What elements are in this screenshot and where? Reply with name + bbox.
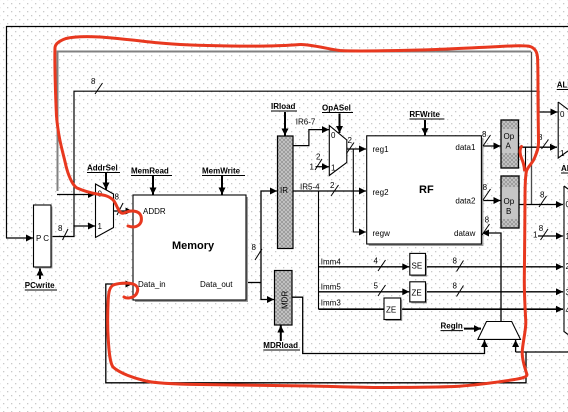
arrow: OpASel down into mux (339, 114, 341, 134)
wire: gray bus vertical right (531, 52, 533, 205)
svg-text:4: 4 (374, 257, 379, 266)
arrow: RegIn into mux (464, 328, 481, 330)
wire: Imm4 to SE (319, 266, 410, 268)
wire: constant 1 (8-bit) to right mux (538, 235, 563, 237)
label OpASel (322, 104, 353, 113)
memory block (133, 195, 248, 302)
register IR (278, 136, 294, 249)
svg-text:MemWrite: MemWrite (202, 167, 241, 176)
label MemRead (131, 167, 172, 176)
arrow: RFWrite down into RF (424, 120, 426, 135)
svg-text:data1: data1 (455, 143, 476, 152)
slash const1 2 (315, 159, 322, 170)
svg-text:IRload: IRload (271, 102, 296, 111)
svg-text:8: 8 (485, 216, 490, 225)
wire: IR6-7 to OpASel mux input 0 (293, 130, 329, 146)
svg-text:1: 1 (98, 222, 103, 231)
sign extend SE (410, 253, 427, 276)
register PC (34, 205, 53, 269)
svg-text:8: 8 (91, 77, 96, 86)
svg-text:1: 1 (533, 231, 538, 240)
wire: Op B output to right mux input (519, 204, 563, 206)
svg-text:Al: Al (561, 164, 568, 173)
svg-text:2: 2 (316, 153, 321, 162)
svg-text:B: B (506, 207, 511, 216)
wire: frame into PC input (6, 237, 33, 239)
slash Op A out 8 (542, 140, 549, 150)
wire: corner down to bottom run (106, 284, 526, 383)
svg-text:IR5-4: IR5-4 (300, 183, 320, 192)
slash SE out 8 (457, 261, 464, 272)
wire: Data_in loop (bottom) (516, 351, 568, 353)
wire: Op A output to ALU mux input 1 (519, 146, 558, 148)
svg-text:reg1: reg1 (373, 145, 390, 154)
register file RF (367, 136, 484, 246)
arrow: MemRead down into Memory (152, 176, 154, 195)
svg-text:ALU: ALU (557, 81, 568, 90)
label RegIn (441, 322, 464, 331)
slash feedback bus 8 (95, 83, 103, 94)
svg-text:Imm4: Imm4 (321, 258, 342, 267)
mux RegIn (trapezoid) (478, 322, 521, 340)
label MemWrite (202, 167, 245, 176)
svg-text:PC: PC (36, 234, 49, 243)
wire: Data_out to junction (246, 282, 261, 284)
slash data1 8 (483, 135, 491, 146)
mux ALU input B (right, cut off) (564, 186, 568, 335)
svg-text:1: 1 (310, 163, 315, 172)
red hand-drawn loop (55, 37, 539, 388)
slash Imm4 4 (378, 260, 386, 271)
svg-text:OpASel: OpASel (322, 104, 351, 113)
wire: Imm branch vertical (318, 191, 320, 309)
svg-text:1: 1 (331, 164, 336, 173)
svg-text:8: 8 (483, 183, 488, 192)
mux AddrSel (96, 184, 114, 238)
svg-text:Data_out: Data_out (200, 280, 233, 289)
svg-text:8: 8 (482, 130, 487, 139)
wire: Imm3 through ZE to right mux (319, 308, 564, 310)
wire: junction down to MDR input (261, 283, 274, 300)
mux ALU input A (top right, cut off) (558, 102, 568, 158)
wire: outer feedback frame top (7, 27, 568, 239)
svg-text:Imm3: Imm3 (321, 299, 342, 308)
svg-text:Memory: Memory (172, 240, 215, 252)
wire: RegIn mux output to RF dataw (482, 233, 501, 322)
slash PC out 8 (63, 229, 69, 240)
svg-text:SE: SE (412, 262, 423, 271)
register Op A (501, 120, 519, 168)
label MDRload (263, 341, 300, 350)
label ALU (top right cut) (557, 81, 568, 90)
slash ZE out 8 (457, 286, 464, 297)
svg-text:8: 8 (453, 282, 458, 291)
arrow: PCwrite up into PC (39, 269, 41, 280)
wire: RF data2 to Op B (482, 200, 501, 202)
wire: SE output to right mux (426, 266, 564, 268)
svg-text:IR6-7: IR6-7 (296, 118, 316, 127)
svg-text:dataw: dataw (454, 229, 476, 238)
arrow: IRload down into IR (284, 112, 286, 136)
arrow: MemWrite down into Memory (221, 176, 223, 195)
wire: MDR output to RegIn mux (292, 297, 485, 353)
svg-text:IR: IR (280, 186, 288, 195)
wire: AddrSel mux output to Memory ADDR (114, 210, 133, 212)
svg-text:1: 1 (560, 149, 565, 158)
zero extend ZE (Imm3) (384, 298, 402, 321)
arrow: MDRload up into MDR (280, 326, 282, 342)
svg-text:A: A (506, 142, 512, 151)
svg-text:8: 8 (252, 243, 257, 252)
slash Op B out 8 (539, 196, 547, 207)
wire: IR5-4 to RF reg2 (293, 190, 366, 192)
wire: junction up to IR input (261, 191, 277, 283)
wire: right input of RegIn mux (515, 340, 517, 352)
register MDR (275, 271, 293, 326)
svg-text:Data_in: Data_in (138, 280, 166, 289)
slash IR5-4 2 (331, 185, 339, 196)
wire: OpASel mux output to RF reg1 (347, 148, 366, 150)
svg-text:RF: RF (419, 184, 434, 196)
wire: branch to RF regw (353, 149, 366, 232)
svg-text:PCwrite: PCwrite (25, 281, 55, 290)
svg-text:RegIn: RegIn (441, 322, 463, 331)
svg-text:8: 8 (453, 257, 458, 266)
slash const1 8 (541, 229, 549, 240)
svg-text:2: 2 (330, 181, 335, 190)
wire: RF data1 to Op A (482, 145, 501, 147)
slash MDR-IR 8 (255, 249, 262, 260)
wire: Op A branch down (525, 147, 527, 204)
red spur near Op A (520, 147, 524, 171)
svg-text:reg2: reg2 (373, 188, 390, 197)
svg-text:8: 8 (540, 191, 545, 200)
slash OpASel out 2 (347, 143, 355, 154)
svg-text:Op: Op (504, 197, 515, 206)
svg-text:8: 8 (58, 224, 63, 233)
wire: gray bus top (y=51) (58, 52, 532, 192)
svg-text:ZE: ZE (386, 306, 396, 315)
svg-text:8: 8 (539, 224, 544, 233)
svg-text:Imm5: Imm5 (321, 283, 342, 292)
mux OpASel (329, 126, 347, 176)
wire: constant 1 to OpASel mux input 1 (316, 166, 330, 168)
svg-text:Op: Op (504, 132, 515, 141)
svg-text:5: 5 (374, 282, 379, 291)
svg-text:0: 0 (331, 131, 336, 140)
svg-text:MemRead: MemRead (131, 167, 169, 176)
zero extend ZE (Imm5) (410, 282, 427, 304)
wire: PC output to AddrSel mux input 1 (51, 226, 95, 237)
slash Imm5 5 (378, 285, 386, 296)
wire: ZE output to right mux (426, 291, 564, 293)
wire: bus into AddrSel mux input 0 (57, 194, 95, 196)
svg-text:ADDR: ADDR (143, 207, 166, 216)
svg-text:RFWrite: RFWrite (409, 110, 440, 119)
label ALU (right cut) (561, 164, 568, 173)
slash dataw 8 (482, 224, 490, 235)
svg-text:MDRload: MDRload (263, 341, 298, 350)
svg-text:ZE: ZE (412, 289, 422, 298)
wire: feedback 8-bus (y=91) (74, 91, 558, 226)
svg-text:2: 2 (348, 136, 353, 145)
label IRload (271, 102, 297, 111)
slash ADDR 8 (117, 203, 123, 215)
wire: Imm5 to ZE (319, 291, 410, 293)
label AddrSel (87, 164, 120, 173)
svg-text:MDR: MDR (281, 291, 290, 309)
register Op B (501, 176, 519, 228)
svg-text:AddrSel: AddrSel (87, 164, 118, 173)
svg-text:data2: data2 (455, 197, 476, 206)
svg-text:regw: regw (373, 229, 391, 238)
svg-text:0: 0 (560, 110, 565, 119)
slash data2 8 (483, 189, 491, 200)
label RFWrite (409, 110, 444, 119)
label PCwrite (25, 281, 57, 290)
svg-text:8: 8 (115, 193, 120, 202)
arrow: AddrSel down into mux (105, 172, 107, 190)
